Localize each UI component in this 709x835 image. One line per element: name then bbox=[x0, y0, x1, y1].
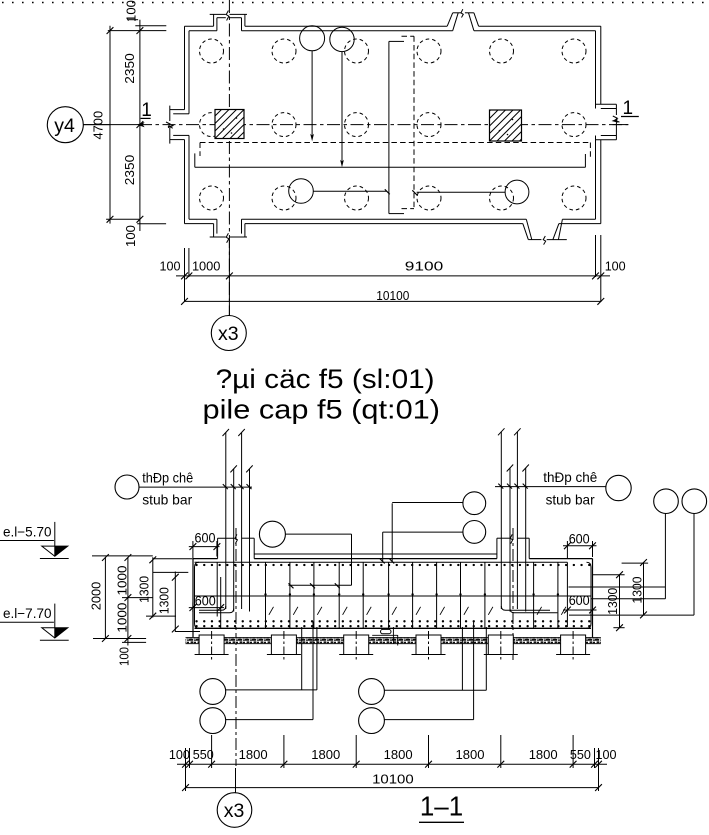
svg-text:100: 100 bbox=[596, 747, 617, 762]
dim 1300 chain C (section right) bbox=[593, 571, 625, 631]
section arrow right bbox=[612, 118, 629, 125]
svg-text:600: 600 bbox=[195, 594, 216, 609]
rebar bar horizontal solid (plan) bbox=[195, 153, 586, 167]
column C2 hatched (plan) bbox=[490, 42, 522, 202]
dim 1300 chain A (section left) bbox=[138, 556, 176, 619]
svg-text:thÐp chê: thÐp chê bbox=[543, 469, 597, 485]
section arrow left bbox=[137, 122, 174, 128]
section bottom dim line 1 bbox=[177, 761, 607, 768]
svg-text:1800: 1800 bbox=[239, 747, 268, 762]
svg-text:x3: x3 bbox=[218, 323, 239, 345]
label stub bar right bbox=[495, 469, 631, 507]
pile circle row3 col3 bbox=[345, 186, 369, 210]
pile circle row2 col3 bbox=[345, 113, 369, 137]
section bottom dim texts bbox=[169, 747, 617, 762]
pile circle row3 col1 bbox=[200, 186, 224, 210]
lean concrete layer bbox=[186, 638, 601, 644]
svg-text:x3: x3 bbox=[224, 800, 245, 822]
pile circle row1 col4 bbox=[417, 39, 441, 63]
stub bars right column bbox=[498, 428, 557, 613]
callout circle bottom A2 (section) bbox=[200, 622, 313, 734]
svg-text:1800: 1800 bbox=[384, 747, 413, 762]
elevation marker e.l-7.70 bbox=[0, 604, 69, 641]
label stub bar left bbox=[115, 470, 252, 508]
left beam stub bbox=[166, 106, 189, 144]
grid bubble x3 (section) bbox=[217, 768, 252, 827]
svg-text:4700: 4700 bbox=[90, 111, 105, 140]
svg-text:600: 600 bbox=[569, 532, 590, 547]
grid centerline x3 vertical bbox=[228, 0, 230, 316]
dim 1300 chain B (section left) bbox=[153, 572, 200, 633]
top+bottom bar hook right bbox=[566, 562, 568, 627]
dim text 2350 lower bbox=[122, 155, 137, 186]
svg-text:1800: 1800 bbox=[529, 747, 558, 762]
dim connector top bbox=[108, 26, 167, 31]
dim 600 top-right bbox=[563, 532, 597, 558]
svg-text:9100: 9100 bbox=[405, 258, 444, 273]
plan bottom dim line 1 bbox=[176, 273, 610, 280]
svg-text:1000: 1000 bbox=[115, 565, 129, 595]
svg-text:1000: 1000 bbox=[192, 258, 221, 273]
svg-text:100: 100 bbox=[169, 747, 190, 762]
dim 2000 vertical (section) bbox=[89, 554, 109, 642]
svg-text:pile cap f5 (qt:01): pile cap f5 (qt:01) bbox=[203, 395, 441, 425]
rebar bar vertical dashed (plan) bbox=[402, 36, 415, 208]
pile circle row3 col5 bbox=[490, 186, 514, 210]
elevation marker e.l-5.70 bbox=[0, 522, 69, 559]
svg-text:550: 550 bbox=[570, 747, 591, 762]
bottom rebar mesh (section) bbox=[195, 621, 592, 628]
plan bottom dim line 2 bbox=[181, 298, 604, 305]
svg-text:stub bar: stub bar bbox=[546, 491, 595, 507]
callout circle plan top 1 bbox=[300, 26, 325, 141]
svg-text:e.l−7.70: e.l−7.70 bbox=[3, 606, 51, 621]
pile circle row1 col3 bbox=[345, 39, 369, 63]
pile stub S4 (section) bbox=[412, 631, 446, 660]
sheet border dotted line bbox=[2, 2, 709, 4]
middle rebar line (section) bbox=[195, 593, 592, 596]
right leader lines into cap bbox=[569, 587, 695, 615]
dim text 10100 (section) bbox=[372, 771, 414, 786]
dim 100 lean concrete (section) bbox=[117, 639, 131, 667]
dim text 10100 (plan) bbox=[376, 288, 409, 303]
top bar hook left bbox=[216, 562, 218, 616]
dim text 9100 (plan bottom) bbox=[405, 258, 444, 273]
pile circle row1 col6 bbox=[562, 39, 586, 63]
svg-text:1–1: 1–1 bbox=[420, 791, 463, 822]
svg-text:1800: 1800 bbox=[311, 747, 340, 762]
section label 1 right bbox=[621, 98, 639, 119]
column centerline left (dash-dot) bbox=[235, 528, 237, 766]
callout circle bottom B1 (section) bbox=[359, 627, 487, 704]
svg-text:1300: 1300 bbox=[631, 576, 645, 603]
dim text 1000 (plan bottom) bbox=[192, 258, 221, 273]
bar loop detail at cap bottom bbox=[372, 627, 398, 646]
top beam stub bbox=[210, 11, 247, 31]
callout circle plan bottom 2 bbox=[412, 180, 529, 204]
dim text 4700 bbox=[90, 111, 105, 140]
dim 600 bottom-left bbox=[189, 594, 224, 613]
section label 1 left bbox=[141, 100, 152, 121]
svg-text:2000: 2000 bbox=[89, 582, 103, 611]
svg-text:1300: 1300 bbox=[606, 588, 620, 615]
pile circle row2 col2 bbox=[272, 113, 296, 137]
svg-text:?µi cäc f5 (sl:01): ?µi cäc f5 (sl:01) bbox=[216, 364, 435, 394]
svg-text:600: 600 bbox=[195, 530, 216, 545]
dim 600 bottom-right bbox=[563, 593, 597, 614]
svg-text:thÐp chê: thÐp chê bbox=[142, 470, 193, 486]
svg-text:10100: 10100 bbox=[376, 288, 409, 303]
column stub right outline bbox=[497, 534, 529, 558]
rebar bar vertical solid (plan) bbox=[389, 41, 404, 213]
grid bubble y4 bbox=[47, 107, 110, 143]
svg-text:100: 100 bbox=[123, 225, 138, 247]
rebar bar horizontal dashed (plan) bbox=[200, 143, 590, 158]
pile cap plan inner outline bbox=[189, 31, 596, 220]
svg-text:2350: 2350 bbox=[122, 53, 137, 84]
dim text 2350 upper bbox=[122, 53, 137, 84]
edge U-bar left (section) bbox=[195, 562, 200, 628]
callout circle bottom B2 (section) bbox=[359, 622, 474, 734]
section line 1-1 horizontal centerline bbox=[84, 124, 629, 126]
right beam stub bbox=[596, 104, 620, 140]
pile stub S6 (section) bbox=[556, 631, 590, 660]
callout circles middle pair (section top) bbox=[383, 492, 486, 543]
svg-text:1300: 1300 bbox=[158, 587, 172, 614]
svg-text:1000: 1000 bbox=[115, 603, 129, 633]
callout circle plan bottom 1 bbox=[289, 179, 390, 204]
pile circle row2 col5 bbox=[490, 113, 514, 137]
plan bottom dim extension lines bbox=[185, 235, 601, 302]
top rebar line (section) bbox=[195, 561, 568, 563]
bottom edge break symbol bbox=[523, 219, 567, 244]
line between columns on cap top bbox=[254, 553, 497, 555]
pile circle row3 col4 bbox=[417, 186, 441, 210]
callout circles right pair bbox=[654, 489, 707, 615]
dim text 100 right (plan bottom) bbox=[605, 258, 626, 273]
svg-text:1300: 1300 bbox=[138, 576, 152, 603]
pile cap plan outer outline bbox=[185, 26, 601, 223]
dim text 100 top-left bbox=[124, 0, 139, 22]
pile stub S3 (section) bbox=[339, 631, 373, 660]
svg-text:550: 550 bbox=[193, 747, 214, 762]
section bottom dim extension lines bbox=[186, 735, 599, 791]
svg-text:2350: 2350 bbox=[122, 155, 137, 186]
svg-text:y4: y4 bbox=[54, 115, 75, 137]
pile circle row3 col6 bbox=[562, 186, 586, 210]
pile stub S5 (section) bbox=[484, 631, 518, 660]
dim connector bottom bbox=[106, 219, 166, 223]
pile circle row1 col5 bbox=[490, 39, 514, 63]
stirrup hook dashes bbox=[269, 607, 566, 615]
title vietnamese: pile cap f5 bbox=[216, 364, 435, 394]
pile circle row2 col6 bbox=[562, 113, 586, 137]
dim mini line 100 top bbox=[128, 19, 139, 21]
pile circle row3 col2 bbox=[272, 186, 296, 210]
column stub left outline bbox=[218, 534, 255, 558]
svg-text:10100: 10100 bbox=[372, 771, 414, 786]
pile stub S1 (section) bbox=[195, 631, 229, 660]
svg-text:e.l−5.70: e.l−5.70 bbox=[3, 524, 51, 539]
stub bars left column bbox=[199, 429, 253, 613]
column centerline right (dash-dot) bbox=[512, 528, 514, 660]
dim 1000/1000 chain (section) bbox=[115, 554, 131, 642]
dim 1300 chain D (section right) bbox=[622, 559, 649, 618]
grid bubble x3 (plan) bbox=[211, 240, 246, 351]
dim text 100 left (plan bottom) bbox=[160, 258, 181, 273]
section title 1-1 bbox=[419, 791, 464, 823]
column C1 hatched (plan) bbox=[215, 50, 244, 192]
section cap outline bbox=[193, 559, 593, 639]
svg-text:100: 100 bbox=[117, 647, 131, 666]
section bottom dim line 2 bbox=[182, 784, 602, 791]
svg-text:1800: 1800 bbox=[456, 747, 485, 762]
dim line 2350 chain vertical bbox=[137, 20, 144, 231]
edge U-bar right (section) bbox=[587, 562, 592, 628]
pile circle row1 col1 bbox=[200, 39, 224, 63]
leader arrows to cap top bbox=[380, 503, 395, 563]
top edge break symbol bbox=[447, 9, 478, 31]
pile circle row2 col1 bbox=[200, 113, 224, 137]
svg-text:600: 600 bbox=[569, 593, 590, 608]
svg-text:100: 100 bbox=[160, 258, 181, 273]
bottom bar hook left bbox=[220, 577, 222, 628]
pile circle row1 col2 bbox=[272, 39, 296, 63]
callout circle left-mid (section) bbox=[259, 521, 351, 588]
title english: pile cap f5 bbox=[203, 395, 441, 425]
bottom beam stub bbox=[210, 219, 247, 243]
pile stub S2 (section) bbox=[267, 631, 301, 660]
dim 600 top-left bbox=[189, 530, 221, 558]
top rebar cross bar marks bbox=[197, 564, 591, 566]
svg-text:100: 100 bbox=[605, 258, 626, 273]
svg-text:stub bar: stub bar bbox=[142, 492, 192, 508]
callout circle bottom A1 (section) bbox=[200, 627, 317, 704]
section dim connectors left bbox=[92, 556, 193, 643]
stirrups (section) bbox=[266, 562, 558, 628]
svg-text:100: 100 bbox=[124, 0, 139, 22]
dim line 4700 vertical bbox=[107, 26, 114, 224]
pile circle row2 col4 bbox=[417, 113, 441, 137]
callout circle plan top 2 bbox=[330, 27, 354, 167]
dim text 100 bottom-left bbox=[123, 225, 138, 247]
